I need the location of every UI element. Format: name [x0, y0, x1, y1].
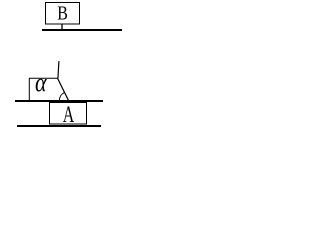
- step block: top and left edges: [29, 78, 58, 100]
- rod (slanted line): [58, 61, 69, 101]
- middle surface line: [15, 100, 103, 102]
- svg-text:α: α: [35, 68, 48, 97]
- svg-text:A: A: [63, 102, 75, 127]
- tick under B: [61, 24, 63, 31]
- ground line: [17, 125, 101, 127]
- svg-text:B: B: [57, 3, 68, 25]
- angle arc: [59, 92, 64, 100]
- block A box: [50, 103, 87, 125]
- block B box: [46, 3, 80, 25]
- top shelf line: [42, 29, 122, 31]
